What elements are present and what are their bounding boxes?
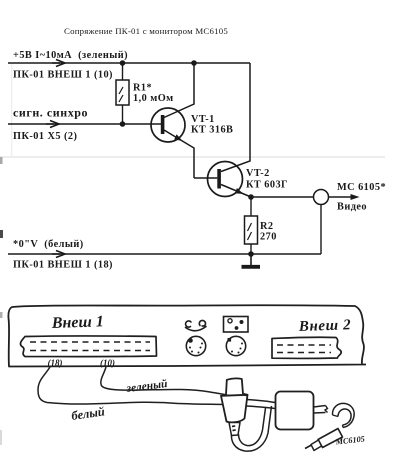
resistor R1	[116, 80, 129, 105]
svg-text:Сопряжение ПК-01 с монитором М: Сопряжение ПК-01 с монитором МС6105	[64, 26, 228, 36]
wire +5V rail	[8, 62, 250, 64]
label VT-2	[246, 168, 288, 191]
node VT-1 collector junction	[191, 60, 197, 66]
svg-text:Видео: Видео	[337, 202, 367, 213]
label Vnesh 2 (handwritten)	[298, 317, 352, 335]
label MC 6105* Video	[337, 182, 386, 213]
connector slot Vnesh 1	[20, 336, 156, 357]
svg-text:КТ 316В: КТ 316В	[191, 125, 233, 136]
label PK-01 VNESH 1 (18)	[13, 260, 113, 271]
label sync signal	[13, 105, 88, 119]
node R1 top junction	[120, 60, 126, 66]
plug body	[221, 378, 248, 435]
label R1* value	[133, 83, 174, 104]
DIN connector 1	[186, 336, 205, 355]
label Vnesh 1 (handwritten)	[51, 313, 105, 332]
svg-text:зеленый: зеленый	[125, 377, 169, 395]
svg-text:МС 6105*: МС 6105*	[337, 182, 386, 193]
svg-text:R2: R2	[260, 221, 274, 232]
label MC6105 (handwritten)	[334, 434, 365, 446]
dotted rectangle connector	[224, 317, 249, 333]
cylinder tab	[314, 406, 328, 414]
scan artifact faint band	[0, 64, 385, 157]
svg-text:(18): (18)	[48, 358, 63, 368]
cable plug to cylinder	[246, 400, 275, 409]
label pin (10)	[100, 358, 115, 368]
svg-text:*0"V (белый): *0"V (белый)	[13, 239, 84, 250]
wire terminal to 0V	[320, 205, 322, 255]
svg-text:VT-2: VT-2	[246, 168, 270, 179]
ground	[242, 254, 261, 267]
small plug MC6105	[305, 429, 343, 451]
node ground junction	[248, 251, 254, 257]
label PK-01 VNESH 1 (10)	[13, 70, 113, 81]
hook cable	[332, 403, 354, 427]
transistor VT-1	[151, 63, 194, 178]
svg-text:КТ 603Г: КТ 603Г	[246, 180, 288, 191]
handles icon	[186, 320, 207, 330]
wire video line	[251, 196, 314, 198]
resistor R2	[245, 216, 258, 244]
label R2 value	[260, 221, 277, 243]
panel outline	[8, 305, 366, 366]
arrow on 0V wire	[52, 251, 65, 258]
label pin (18)	[48, 358, 63, 368]
wire white (beliy)	[38, 367, 247, 406]
cable loop plug to cylinder	[231, 406, 271, 451]
label PK-01 X5 (2)	[13, 131, 77, 142]
wire R1 bottom stub	[122, 105, 124, 124]
label 0V net	[13, 239, 84, 250]
svg-text:(10): (10)	[100, 358, 115, 368]
svg-text:ПК-01 ВНЕШ 1 (10): ПК-01 ВНЕШ 1 (10)	[13, 70, 113, 81]
svg-text:1,0 мОм: 1,0 мОм	[133, 93, 174, 104]
wire R2 bottom stub	[250, 244, 252, 254]
svg-text:сигн. синхро: сигн. синхро	[13, 105, 88, 119]
svg-text:VT-1: VT-1	[191, 114, 215, 125]
label +5V net	[13, 50, 128, 61]
DIN connector 2	[226, 336, 245, 355]
svg-text:+5В I~10мА (зеленый): +5В I~10мА (зеленый)	[13, 50, 128, 61]
wire output arrow	[329, 194, 360, 200]
arrow on +5V wire	[52, 60, 65, 67]
svg-text:Внеш 2: Внеш 2	[298, 317, 352, 335]
transistor VT-2	[208, 63, 252, 197]
svg-text:270: 270	[260, 232, 277, 243]
label VT-1	[191, 114, 233, 136]
cylinder body	[276, 392, 314, 430]
title	[64, 26, 228, 36]
wire sync line	[8, 123, 161, 125]
wire VT-2 base	[194, 177, 217, 179]
output terminal circle	[314, 190, 329, 205]
arrow on sync wire	[46, 121, 59, 128]
wire 0V line	[8, 253, 321, 255]
svg-text:Внеш 1: Внеш 1	[51, 313, 105, 332]
scan artifact left edge marks	[0, 157, 3, 445]
svg-text:ПК-01 Х5 (2): ПК-01 Х5 (2)	[13, 131, 77, 142]
connector slot Vnesh 2	[272, 337, 341, 358]
svg-text:МС6105: МС6105	[334, 434, 365, 446]
node R1 bottom junction	[120, 121, 126, 127]
wire green (zeleniy)	[101, 367, 248, 400]
wire R1 top stub	[122, 63, 124, 80]
label beliy (handwritten)	[70, 404, 105, 423]
node VT-2 emitter junction	[248, 194, 254, 200]
wire R2 top stub	[250, 197, 252, 216]
svg-text:белый: белый	[70, 404, 105, 423]
label zeleniy (handwritten)	[125, 377, 169, 395]
svg-text:ПК-01 ВНЕШ 1 (18): ПК-01 ВНЕШ 1 (18)	[13, 260, 113, 271]
